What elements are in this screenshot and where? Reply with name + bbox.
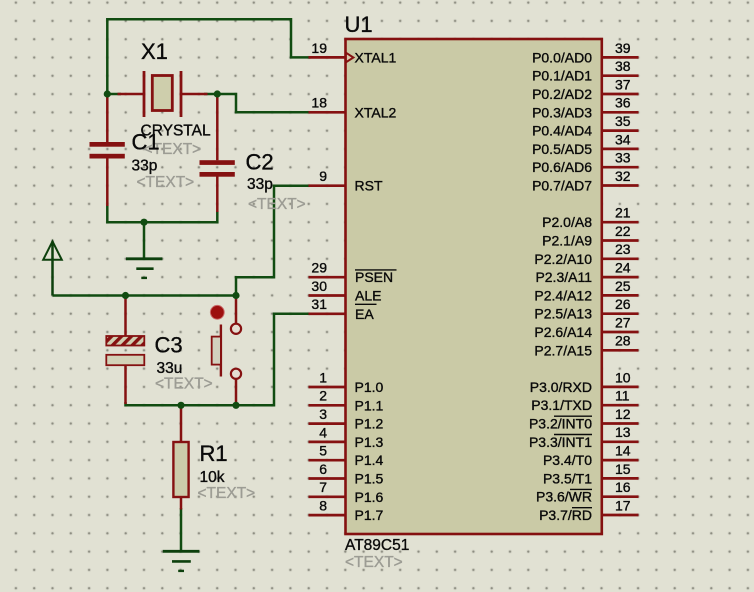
svg-text:3: 3 xyxy=(319,406,327,422)
svg-text:XTAL1: XTAL1 xyxy=(355,49,397,65)
pin 28 P2.7/A15 stub xyxy=(602,349,639,352)
svg-text:P1.3: P1.3 xyxy=(355,434,384,450)
overline PSEN xyxy=(355,269,397,271)
svg-text:U1: U1 xyxy=(345,12,373,37)
svg-text:P2.0/A8: P2.0/A8 xyxy=(542,214,592,230)
pin 29 PSEN stub xyxy=(309,276,346,279)
svg-text:10k: 10k xyxy=(200,469,225,486)
svg-text:16: 16 xyxy=(615,479,631,495)
svg-text:P2.5/A13: P2.5/A13 xyxy=(534,306,592,322)
svg-text:18: 18 xyxy=(311,95,327,111)
pin 14 P3.4/T0 stub xyxy=(602,459,639,462)
overline EA xyxy=(355,303,377,305)
svg-text:2: 2 xyxy=(319,388,327,404)
svg-text:12: 12 xyxy=(615,406,631,422)
svg-text:24: 24 xyxy=(615,260,631,276)
svg-text:35: 35 xyxy=(615,113,631,129)
svg-text:X1: X1 xyxy=(141,39,168,64)
svg-text:P0.6/AD6: P0.6/AD6 xyxy=(532,159,592,175)
svg-text:5: 5 xyxy=(319,443,327,459)
svg-text:38: 38 xyxy=(615,58,631,74)
node C2/X1 right xyxy=(214,90,221,97)
overline INT1 xyxy=(554,434,592,436)
wire: XTAL2 net from C2/X1 junction to pin 18 xyxy=(217,94,310,112)
svg-text:13: 13 xyxy=(615,424,631,440)
svg-text:PSEN: PSEN xyxy=(355,269,393,285)
svg-text:25: 25 xyxy=(615,278,631,294)
svg-text:P0.7/AD7: P0.7/AD7 xyxy=(532,178,592,194)
pin 12 P3.2/INT0 stub xyxy=(602,422,639,425)
pin 7 P1.6 stub xyxy=(309,495,346,498)
pin 39 P0.0/AD0 stub xyxy=(602,56,639,59)
pin 15 P3.5/T1 stub xyxy=(602,477,639,480)
svg-text:P3.3/INT1: P3.3/INT1 xyxy=(529,434,592,450)
capacitor C3 polarized xyxy=(106,297,144,404)
wire: X1 left junction stub xyxy=(107,93,121,96)
svg-text:37: 37 xyxy=(615,76,631,92)
svg-text:9: 9 xyxy=(319,168,327,184)
svg-text:31: 31 xyxy=(311,296,327,312)
pin 37 P0.2/AD2 stub xyxy=(602,93,639,96)
pin 19 XTAL1 stub xyxy=(309,56,346,59)
pin 33 P0.6/AD6 stub xyxy=(602,166,639,169)
svg-text:19: 19 xyxy=(311,40,327,56)
pin 32 P0.7/AD7 stub xyxy=(602,184,639,187)
svg-text:P1.1: P1.1 xyxy=(355,397,384,413)
pin 16 P3.6/WR stub xyxy=(602,495,639,498)
svg-text:P2.7/A15: P2.7/A15 xyxy=(534,342,592,358)
svg-text:15: 15 xyxy=(615,461,631,477)
pin 9 RST stub xyxy=(309,184,346,187)
svg-text:P2.1/A9: P2.1/A9 xyxy=(542,233,592,249)
node button bottom xyxy=(232,402,239,409)
pin 24 P2.3/A11 stub xyxy=(602,276,639,279)
wire: bottom rail C3/R1/button to EA pin 31 xyxy=(126,314,311,406)
svg-text:<TEXT>: <TEXT> xyxy=(198,485,256,502)
svg-text:<TEXT>: <TEXT> xyxy=(345,554,403,571)
overline INT0 xyxy=(554,415,592,417)
pin 8 P1.7 stub xyxy=(309,514,346,517)
pin 18 XTAL2 stub xyxy=(309,111,346,114)
pin 36 P0.3/AD3 stub xyxy=(602,111,639,114)
svg-text:30: 30 xyxy=(311,278,327,294)
node reset junction xyxy=(232,292,239,299)
svg-text:P3.7/RD: P3.7/RD xyxy=(539,507,592,523)
svg-text:22: 22 xyxy=(615,223,631,239)
pin 23 P2.2/A10 stub xyxy=(602,257,639,260)
svg-text:P3.5/T1: P3.5/T1 xyxy=(543,470,592,486)
ground (below C1/C2 bus) xyxy=(126,259,162,278)
node C3 top xyxy=(122,292,129,299)
svg-text:P2.3/A11: P2.3/A11 xyxy=(535,269,592,285)
pin 13 P3.3/INT1 stub xyxy=(602,440,639,443)
svg-text:8: 8 xyxy=(319,498,327,514)
svg-text:P1.0: P1.0 xyxy=(355,379,384,395)
pin 22 P2.1/A9 stub xyxy=(602,239,639,242)
svg-text:32: 32 xyxy=(615,168,631,184)
pin 5 P1.4 stub xyxy=(309,459,346,462)
svg-text:P0.4/AD4: P0.4/AD4 xyxy=(532,123,592,139)
svg-text:ALE: ALE xyxy=(355,288,381,304)
svg-text:36: 36 xyxy=(615,95,631,111)
pin 10 P3.0/RXD stub xyxy=(602,386,639,389)
wire: XTAL1 net (top wire from C1/X1 junction to pin 19) xyxy=(107,19,310,94)
wire: RST net from pin 9 down to reset junction xyxy=(236,186,311,296)
svg-text:21: 21 xyxy=(615,205,631,221)
pin 25 P2.4/A12 stub xyxy=(602,294,639,297)
wire: C1-C2 ground bus xyxy=(107,205,217,222)
pin 26 P2.5/A13 stub xyxy=(602,312,639,315)
svg-text:27: 27 xyxy=(615,314,631,330)
pin XTAL1 clock arrow glyph xyxy=(346,53,354,63)
svg-text:C2: C2 xyxy=(246,149,274,174)
svg-text:XTAL2: XTAL2 xyxy=(355,104,397,120)
svg-text:P1.7: P1.7 xyxy=(355,507,384,523)
svg-text:34: 34 xyxy=(615,131,631,147)
pin 11 P3.1/TXD stub xyxy=(602,404,639,407)
svg-text:10: 10 xyxy=(615,369,631,385)
svg-text:11: 11 xyxy=(615,388,630,404)
capacitor C1 xyxy=(90,95,125,206)
overline WR xyxy=(570,488,592,490)
svg-text:R1: R1 xyxy=(200,441,228,466)
pin 31 EA stub xyxy=(309,312,346,315)
svg-text:P3.0/RXD: P3.0/RXD xyxy=(530,379,592,395)
resistor R1 xyxy=(173,406,188,510)
pin 27 P2.6/A14 stub xyxy=(602,331,639,334)
svg-text:4: 4 xyxy=(319,424,327,440)
svg-text:P3.6/WR: P3.6/WR xyxy=(536,489,592,505)
wire: main reset rail (VCC arrow to button/RST junction) xyxy=(53,294,237,297)
svg-text:14: 14 xyxy=(615,443,631,459)
svg-text:23: 23 xyxy=(615,241,631,257)
button red actuator dot xyxy=(210,305,224,319)
svg-text:<TEXT>: <TEXT> xyxy=(248,196,306,213)
svg-text:33p: 33p xyxy=(132,157,158,174)
svg-text:EA: EA xyxy=(355,306,374,322)
svg-text:RST: RST xyxy=(355,178,383,194)
svg-text:C1: C1 xyxy=(132,130,160,155)
svg-text:P0.0/AD0: P0.0/AD0 xyxy=(532,49,592,65)
svg-text:P1.2: P1.2 xyxy=(355,416,384,432)
svg-text:P1.6: P1.6 xyxy=(355,489,384,505)
svg-text:P3.1/TXD: P3.1/TXD xyxy=(531,397,592,413)
pin 4 P1.3 stub xyxy=(309,441,346,444)
svg-text:<TEXT>: <TEXT> xyxy=(137,174,195,191)
pin 38 P0.1/AD1 stub xyxy=(602,74,639,77)
push button (reset) xyxy=(212,297,241,404)
pin 1 P1.0 stub xyxy=(309,386,346,389)
overline RD xyxy=(572,507,592,509)
pin 21 P2.0/A8 stub xyxy=(602,221,639,224)
svg-text:7: 7 xyxy=(319,479,327,495)
svg-text:P0.3/AD3: P0.3/AD3 xyxy=(532,104,592,120)
pin 3 P1.2 stub xyxy=(309,422,346,425)
svg-text:P0.1/AD1: P0.1/AD1 xyxy=(532,68,592,84)
power arrow (VCC) top-left xyxy=(43,241,62,295)
svg-text:17: 17 xyxy=(615,497,631,513)
wire: ground stem below capacitor bus xyxy=(143,222,146,258)
svg-text:26: 26 xyxy=(615,296,631,312)
crystal X1 xyxy=(118,71,208,117)
capacitor C2 xyxy=(200,95,235,212)
svg-text:P2.6/A14: P2.6/A14 xyxy=(534,324,592,340)
ground (below R1) xyxy=(163,551,200,571)
svg-text:P2.4/A12: P2.4/A12 xyxy=(534,287,592,303)
pin 2 P1.1 stub xyxy=(309,404,346,407)
svg-text:1: 1 xyxy=(319,369,327,385)
pin 30 ALE stub xyxy=(309,294,346,297)
svg-text:33: 33 xyxy=(615,150,631,166)
svg-text:<TEXT>: <TEXT> xyxy=(155,376,213,393)
op: U1 AT89C51 body xyxy=(346,39,602,534)
svg-text:39: 39 xyxy=(615,40,631,56)
svg-text:P0.2/AD2: P0.2/AD2 xyxy=(532,86,592,102)
wire: X1 right junction stub xyxy=(204,93,217,96)
svg-text:P0.5/AD5: P0.5/AD5 xyxy=(532,141,592,157)
node ground tap xyxy=(140,219,147,226)
svg-text:C3: C3 xyxy=(155,332,183,357)
svg-text:6: 6 xyxy=(319,461,327,477)
svg-text:P3.4/T0: P3.4/T0 xyxy=(543,452,592,468)
svg-text:P1.5: P1.5 xyxy=(355,471,384,487)
svg-text:AT89C51: AT89C51 xyxy=(345,537,409,554)
pin 34 P0.5/AD5 stub xyxy=(602,148,639,151)
svg-text:28: 28 xyxy=(615,333,631,349)
node R1 top xyxy=(177,402,184,409)
svg-text:P3.2/INT0: P3.2/INT0 xyxy=(529,416,592,432)
svg-text:P2.2/A10: P2.2/A10 xyxy=(534,251,592,267)
svg-text:33u: 33u xyxy=(157,360,183,377)
svg-text:29: 29 xyxy=(311,260,327,276)
pin 35 P0.4/AD4 stub xyxy=(602,129,639,132)
svg-text:33p: 33p xyxy=(247,176,273,193)
pin 17 P3.7/RD stub xyxy=(602,514,639,517)
svg-text:P1.4: P1.4 xyxy=(355,452,384,468)
wire: R1 lower lead to ground xyxy=(180,508,183,551)
pin 6 P1.5 stub xyxy=(309,477,346,480)
node C1/X1 left xyxy=(104,90,111,97)
